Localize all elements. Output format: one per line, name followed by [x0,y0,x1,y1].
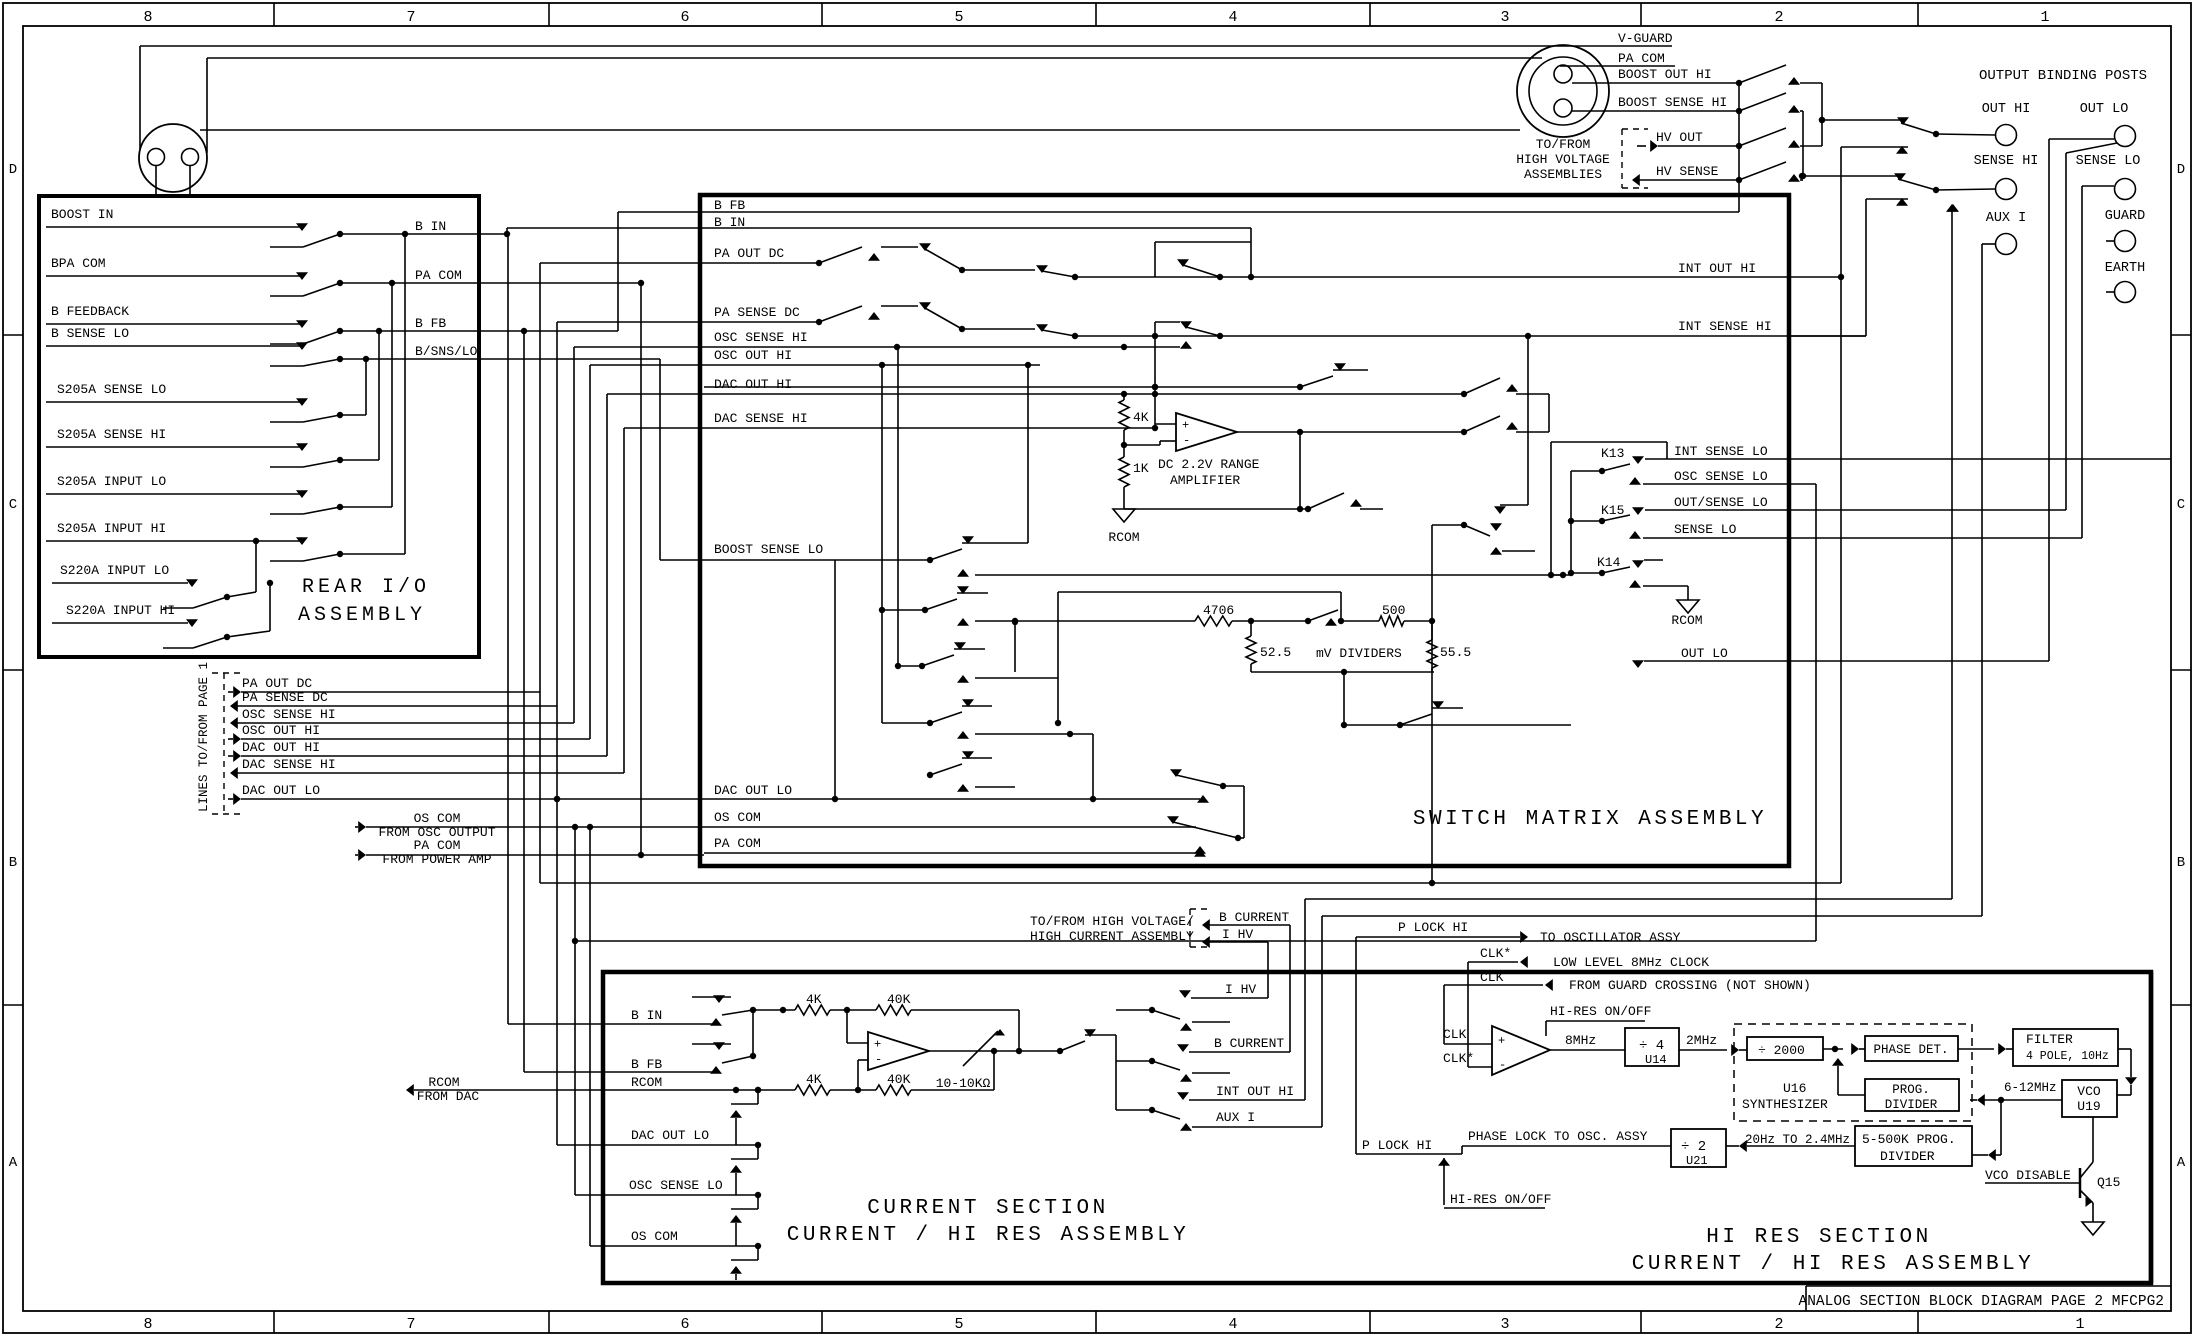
cascade sw5 [927,772,933,778]
CURRENT / HI RES ASSEMBLY box [603,972,2151,1283]
svg-text:OSC SENSE LO: OSC SENSE LO [629,1178,723,1193]
svg-text:CLK*: CLK* [1480,946,1511,961]
PROG DIVIDER box [1865,1079,1959,1111]
bus DAC OUT LO down [554,796,560,802]
svg-text:LINES TO/FROM PAGE 1: LINES TO/FROM PAGE 1 [197,662,211,812]
K14 lower throw to RCOM ground [1629,580,1641,588]
svg-text:PA COM: PA COM [1618,51,1665,66]
svg-text:OSC OUT HI: OSC OUT HI [714,348,792,363]
cascade PA OUT DC [881,246,918,248]
VCO box [2062,1080,2117,1117]
divider switch [1305,618,1311,624]
svg-text:PA SENSE DC: PA SENSE DC [714,305,800,320]
op-amp current section [868,1032,929,1070]
out/sense row mid [704,386,1300,388]
bus DAC SENSE HI [623,428,625,773]
cascade row B [957,618,969,626]
bus PA OUT DC [539,263,541,883]
routing line y887 [540,882,1841,884]
routing line OSC SENSE LO y941 [575,940,1816,942]
svg-text:A: A [9,1155,18,1171]
transistor Q15 [2079,1168,2082,1198]
svg-text:HV SENSE: HV SENSE [1656,164,1719,179]
svg-text:500: 500 [1382,603,1405,618]
dac out lo switch [1170,769,1182,777]
svg-text:B: B [2177,855,2185,871]
svg-text:HV OUT: HV OUT [1656,130,1703,145]
REAR I/O ASSEMBLY box [39,196,479,657]
svg-text:20Hz TO 2.4MHz: 20Hz TO 2.4MHz [1745,1133,1850,1147]
5-500K PROG DIVIDER box [1855,1126,1972,1166]
svg-text:10-10KΩ: 10-10KΩ [936,1076,991,1091]
svg-text:4K: 4K [806,1072,822,1087]
svg-text:1: 1 [2040,9,2049,26]
svg-text:DAC SENSE HI: DAC SENSE HI [242,757,336,772]
svg-text:B FB: B FB [415,316,446,331]
svg-text:INT OUT HI: INT OUT HI [1678,261,1756,276]
svg-text:U14: U14 [1645,1053,1667,1067]
svg-text:4 POLE, 10Hz: 4 POLE, 10Hz [2026,1050,2109,1063]
svg-text:INT SENSE LO: INT SENSE LO [1674,444,1768,459]
svg-text:6-12MHz: 6-12MHz [2004,1081,2057,1095]
svg-text:B SENSE LO: B SENSE LO [51,326,129,341]
divider U14 [1625,1028,1679,1066]
svg-text:8: 8 [143,9,152,26]
wire V-GUARD [140,45,1672,47]
cascade sw3 [919,663,925,669]
cascade vertical x835 [834,560,836,799]
svg-text:FROM GUARD CROSSING (NOT SHOWN: FROM GUARD CROSSING (NOT SHOWN) [1569,978,1811,993]
int out hi switch loop [1154,242,1156,277]
svg-text:DAC OUT LO: DAC OUT LO [714,783,792,798]
riser S205A INPUT LO [340,506,392,508]
svg-text:C: C [2177,497,2185,513]
svg-text:+: + [874,1037,881,1051]
svg-text:S220A INPUT HI: S220A INPUT HI [66,603,175,618]
svg-text:B FB: B FB [631,1057,662,1072]
cascade row D [957,731,969,739]
routing INT OUT HI y899 [1305,898,1952,900]
svg-text:EARTH: EARTH [2105,261,2146,276]
svg-text:S205A INPUT LO: S205A INPUT LO [57,474,166,489]
svg-text:AUX I: AUX I [1986,211,2027,226]
svg-text:PA OUT DC: PA OUT DC [714,246,784,261]
svg-text:5: 5 [954,9,963,26]
svg-text:DAC OUT LO: DAC OUT LO [631,1128,709,1143]
svg-text:U21: U21 [1686,1154,1708,1168]
riser S205A INPUT HI [340,553,405,555]
svg-text:OS COM: OS COM [714,810,761,825]
svg-text:PA COM: PA COM [414,838,461,853]
svg-text:U16: U16 [1783,1081,1806,1096]
svg-text:55.5: 55.5 [1440,645,1471,660]
bus x1155 to dac sense hi [1154,336,1156,428]
riser S205A SENSE LO [340,414,366,416]
cascade sw4 [927,720,933,726]
svg-text:8: 8 [143,1316,152,1333]
svg-text:CURRENT / HI RES ASSEMBLY: CURRENT / HI RES ASSEMBLY [1632,1253,2035,1276]
svg-text:RCOM: RCOM [631,1075,662,1090]
svg-text:B CURRENT: B CURRENT [1219,910,1289,925]
divider bottom row [1251,671,1434,673]
cascade row A [957,569,969,577]
op-amp output wire [1237,431,1464,433]
OUT HI switch [1819,117,1825,123]
svg-text:PHASE LOCK TO OSC. ASSY: PHASE LOCK TO OSC. ASSY [1468,1129,1648,1144]
svg-text:OS COM: OS COM [631,1229,678,1244]
svg-text:TO OSCILLATOR ASSY: TO OSCILLATOR ASSY [1540,930,1681,945]
svg-text:FILTER: FILTER [2026,1032,2073,1047]
svg-text:-: - [1499,1058,1506,1072]
svg-text:TO/FROM: TO/FROM [1536,137,1591,152]
svg-text:B CURRENT: B CURRENT [1214,1036,1284,1051]
svg-text:P LOCK HI: P LOCK HI [1398,920,1468,935]
output switch right [1461,429,1467,435]
svg-text:B FEEDBACK: B FEEDBACK [51,304,129,319]
svg-text:BOOST OUT HI: BOOST OUT HI [1618,67,1712,82]
B FB riser to HV switches [1738,83,1740,212]
svg-text:PHASE DET.: PHASE DET. [1873,1043,1948,1057]
U16 synthesizer dashed box [1734,1024,1972,1121]
wire OSC SENSE LO [1629,477,1641,485]
bus PA SENSE DC [556,322,558,1145]
svg-text:ANALOG SECTION BLOCK DIAGRAM P: ANALOG SECTION BLOCK DIAGRAM PAGE 2 MFCP… [1799,1294,2164,1310]
prog divider feedback wire [1838,1094,1865,1096]
K relay common bus [1570,471,1572,573]
SENSE HI switch [1799,173,1805,179]
svg-text:mV DIVIDERS: mV DIVIDERS [1316,646,1402,661]
wire to SENSE HI switch [1803,175,1901,177]
bus B IN down [507,234,509,1024]
svg-text:AUX I: AUX I [1216,1110,1255,1125]
svg-text:ASSEMBLIES: ASSEMBLIES [1524,167,1602,182]
boost sense lo switch [927,557,933,563]
svg-text:OUT LO: OUT LO [1681,646,1728,661]
svg-text:C: C [9,497,17,513]
svg-text:SENSE LO: SENSE LO [1674,522,1737,537]
svg-text:K15: K15 [1601,503,1624,518]
cascade row E [957,784,969,792]
svg-text:LOW LEVEL 8MHz CLOCK: LOW LEVEL 8MHz CLOCK [1553,955,1709,970]
svg-text:PA COM: PA COM [714,836,761,851]
resistor 52.5 [1250,621,1252,636]
svg-text:OSC SENSE LO: OSC SENSE LO [1674,469,1768,484]
bus B IN riser [506,228,508,234]
svg-text:INT SENSE HI: INT SENSE HI [1678,319,1772,334]
svg-text:PA COM: PA COM [415,268,462,283]
svg-text:Q15: Q15 [2097,1175,2120,1190]
wire B/SNS/LO out [340,358,660,360]
svg-text:SYNTHESIZER: SYNTHESIZER [1742,1097,1828,1112]
svg-text:RCOM: RCOM [1671,613,1702,628]
svg-text:I HV: I HV [1222,927,1253,942]
bus OS COM down [589,827,591,1246]
svg-text:BOOST SENSE HI: BOOST SENSE HI [1618,95,1727,110]
svg-text:DAC OUT LO: DAC OUT LO [242,783,320,798]
svg-text:OSC SENSE HI: OSC SENSE HI [242,707,336,722]
svg-text:S205A INPUT HI: S205A INPUT HI [57,521,166,536]
svg-text:52.5: 52.5 [1260,645,1291,660]
bus OSC OUT HI [589,365,591,739]
wire SENSE LO [1629,531,1641,539]
svg-text:÷ 4: ÷ 4 [1639,1038,1664,1054]
routing line AUX I y916 [1322,915,1982,917]
FILTER box [2013,1029,2118,1066]
svg-text:4: 4 [1228,9,1237,26]
svg-text:7: 7 [406,1316,415,1333]
ground below Q15 [2082,1222,2104,1235]
svg-text:+: + [1498,1034,1505,1048]
svg-text:D: D [2177,162,2185,178]
svg-text:-: - [1183,434,1190,448]
svg-text:HI-RES ON/OFF: HI-RES ON/OFF [1550,1004,1651,1019]
resistor 55.5 [1431,621,1433,640]
riser to sense hi throw [1947,204,1959,212]
cascade vertical x898 [897,347,899,666]
dac out hi switch [1461,391,1467,397]
svg-text:÷ 2000: ÷ 2000 [1758,1043,1805,1058]
svg-text:RCOM: RCOM [428,1075,459,1090]
svg-text:K14: K14 [1597,555,1621,570]
current right switch 3 [1149,1107,1155,1113]
cascade PA SENSE DC [881,305,918,307]
svg-text:RCOM: RCOM [1108,530,1139,545]
HI RES box right edge [2149,972,2154,1283]
int sense hi switch loop [1154,322,1156,336]
svg-text:B/SNS/LO: B/SNS/LO [415,344,478,359]
svg-text:B FB: B FB [714,198,745,213]
bus OSC SENSE HI [573,347,575,723]
svg-text:6: 6 [680,9,689,26]
cascade vertical x882 [881,365,883,723]
svg-text:OSC SENSE HI: OSC SENSE HI [714,330,808,345]
svg-text:CLK*: CLK* [1443,1051,1474,1066]
HV dashed bracket [1621,129,1623,188]
svg-text:CLK: CLK [1480,970,1504,985]
svg-text:-: - [875,1053,882,1067]
bus OSC SENSE LO down [574,827,576,1195]
matrix wire INT SENSE HI [1155,335,1866,337]
svg-text:AMPLIFIER: AMPLIFIER [1170,473,1240,488]
svg-text:INT OUT HI: INT OUT HI [1216,1084,1294,1099]
resistor 4K matrix [1123,394,1125,400]
svg-text:SENSE HI: SENSE HI [1974,154,2039,169]
wire phase det to filter [1958,1048,1994,1050]
pot 10-10K [994,1050,1060,1052]
svg-text:OUT HI: OUT HI [1982,102,2031,117]
wire B FB out [340,330,618,332]
cascade sw2 [922,607,928,613]
matrix RCOM switch row [1124,508,1308,510]
svg-text:+: + [1182,418,1189,432]
svg-text:HI RES SECTION: HI RES SECTION [1706,1226,1931,1249]
filter to VCO wire [2118,1048,2131,1050]
VCO to Q15 wire [2092,1117,2094,1162]
svg-text:ASSEMBLY: ASSEMBLY [298,604,426,627]
wire PA COM top [207,57,1542,59]
PHASE DET box [1865,1036,1958,1061]
bus B FB riser [617,212,619,331]
switch on K14 row [1400,714,1432,725]
svg-text:2MHz: 2MHz [1686,1033,1717,1048]
wire B IN out [340,233,507,235]
svg-text:DIVIDER: DIVIDER [1880,1149,1935,1164]
resistor 1K matrix [1123,430,1125,457]
cascade feed line y592 [1058,591,1341,593]
svg-text:VCO: VCO [2077,1084,2101,1099]
bus PA COM down [640,283,642,855]
svg-text:2: 2 [1774,9,1783,26]
svg-text:OUT/SENSE LO: OUT/SENSE LO [1674,495,1768,510]
svg-text:P LOCK HI: P LOCK HI [1362,1138,1432,1153]
svg-text:SENSE LO: SENSE LO [2076,154,2141,169]
HI-RES ON/OFF riser [1438,1158,1450,1166]
svg-text:4: 4 [1228,1316,1237,1333]
svg-text:VCO DISABLE: VCO DISABLE [1985,1168,2071,1183]
current right switch 2 [1149,1058,1155,1064]
divider U21 [1671,1129,1726,1167]
svg-text:REAR I/O: REAR I/O [302,576,430,599]
svg-text:K13: K13 [1601,446,1624,461]
svg-text:CURRENT SECTION: CURRENT SECTION [867,1197,1109,1220]
svg-text:HIGH VOLTAGE: HIGH VOLTAGE [1516,152,1610,167]
svg-text:3: 3 [1500,9,1509,26]
wire to phase det [1823,1048,1843,1050]
cascade row C [957,675,969,683]
svg-text:PROG.: PROG. [1892,1083,1930,1097]
cascade vertical x1058 [1057,592,1059,678]
svg-text:A: A [2177,1155,2186,1171]
svg-text:1K: 1K [1133,461,1149,476]
svg-text:S205A SENSE HI: S205A SENSE HI [57,427,166,442]
rcom feed vertical [1299,432,1301,509]
wire to OUT HI switch [1822,119,1901,121]
row to K14 [1344,724,1571,726]
svg-text:TO/FROM HIGH VOLTAGE/: TO/FROM HIGH VOLTAGE/ [1030,914,1194,929]
svg-text:GUARD: GUARD [2105,209,2146,224]
divider 2000 [1747,1037,1823,1060]
svg-text:BOOST SENSE LO: BOOST SENSE LO [714,542,823,557]
matrix wire INT OUT HI [1155,276,1841,278]
bus B/SNS/LO to matrix [659,359,661,560]
out/sense riser x1432 [1431,525,1433,883]
svg-text:I HV: I HV [1225,982,1256,997]
svg-text:÷ 2: ÷ 2 [1681,1139,1706,1155]
wire PA COM out [340,282,641,284]
svg-text:4K: 4K [1133,410,1149,425]
svg-text:CURRENT / HI RES ASSEMBLY: CURRENT / HI RES ASSEMBLY [787,1224,1190,1247]
current out switch [1057,1048,1063,1054]
routing riser x1952 [1951,205,1953,899]
svg-text:SWITCH MATRIX ASSEMBLY: SWITCH MATRIX ASSEMBLY [1413,808,1767,831]
SWITCH MATRIX ASSEMBLY box [700,195,1789,866]
svg-text:D: D [9,162,17,178]
svg-text:B: B [9,855,17,871]
svg-text:BOOST IN: BOOST IN [51,207,113,222]
int sense hi drop to switch [1527,336,1529,505]
svg-text:DIVIDER: DIVIDER [1885,1098,1938,1112]
svg-text:OS COM: OS COM [414,811,461,826]
op-amp DC 2.2V range amplifier [1176,413,1237,451]
wire 5-500K to U21 [1747,1145,1855,1147]
svg-text:4706: 4706 [1203,603,1234,618]
switch below drop [1461,522,1467,528]
riser S205A SENSE HI [340,459,379,461]
svg-text:2: 2 [1774,1316,1783,1333]
svg-text:BPA COM: BPA COM [51,256,106,271]
svg-text:OSC OUT HI: OSC OUT HI [242,723,320,738]
svg-text:5: 5 [954,1316,963,1333]
svg-text:8MHz: 8MHz [1565,1033,1596,1048]
ground RCOM matrix [1123,487,1125,509]
svg-text:5-500K PROG.: 5-500K PROG. [1862,1132,1956,1147]
svg-text:DAC SENSE HI: DAC SENSE HI [714,411,808,426]
svg-text:3: 3 [1500,1316,1509,1333]
FET stack [757,1090,759,1104]
svg-text:S220A INPUT LO: S220A INPUT LO [60,563,169,578]
svg-text:HI-RES ON/OFF: HI-RES ON/OFF [1450,1192,1551,1207]
TO/FROM HIGH VOLTAGE ASSEMBLIES connector [1517,45,1609,137]
svg-text:OUT LO: OUT LO [2080,102,2129,117]
svg-text:DC 2.2V RANGE: DC 2.2V RANGE [1158,457,1260,472]
svg-text:PA OUT DC: PA OUT DC [242,676,312,691]
svg-text:B IN: B IN [415,219,446,234]
svg-text:7: 7 [406,9,415,26]
svg-text:1: 1 [2075,1316,2084,1333]
svg-text:PA SENSE DC: PA SENSE DC [242,690,328,705]
cascade vertical x1015 [1014,622,1016,672]
svg-text:S205A SENSE LO: S205A SENSE LO [57,382,166,397]
rear boost connector [139,124,207,192]
svg-text:DAC OUT HI: DAC OUT HI [242,740,320,755]
wire boost to HV connector [200,129,1520,131]
svg-text:CLK: CLK [1443,1027,1467,1042]
svg-text:FROM DAC: FROM DAC [417,1089,480,1104]
svg-text:B IN: B IN [631,1008,662,1023]
svg-text:OUTPUT BINDING POSTS: OUTPUT BINDING POSTS [1979,68,2147,84]
svg-text:4K: 4K [806,992,822,1007]
bus B FB down [523,331,525,1072]
svg-text:6: 6 [680,1316,689,1333]
title block [1806,1285,2171,1287]
current right switch 1 [1149,1007,1155,1013]
svg-text:U19: U19 [2077,1099,2100,1114]
clock comparator op-amp [1492,1026,1550,1075]
svg-text:V-GUARD: V-GUARD [1618,31,1673,46]
svg-text:HIGH CURRENT ASSEMBLY: HIGH CURRENT ASSEMBLY [1030,929,1194,944]
bus DAC OUT HI [606,394,608,756]
svg-text:DAC OUT HI: DAC OUT HI [714,377,792,392]
